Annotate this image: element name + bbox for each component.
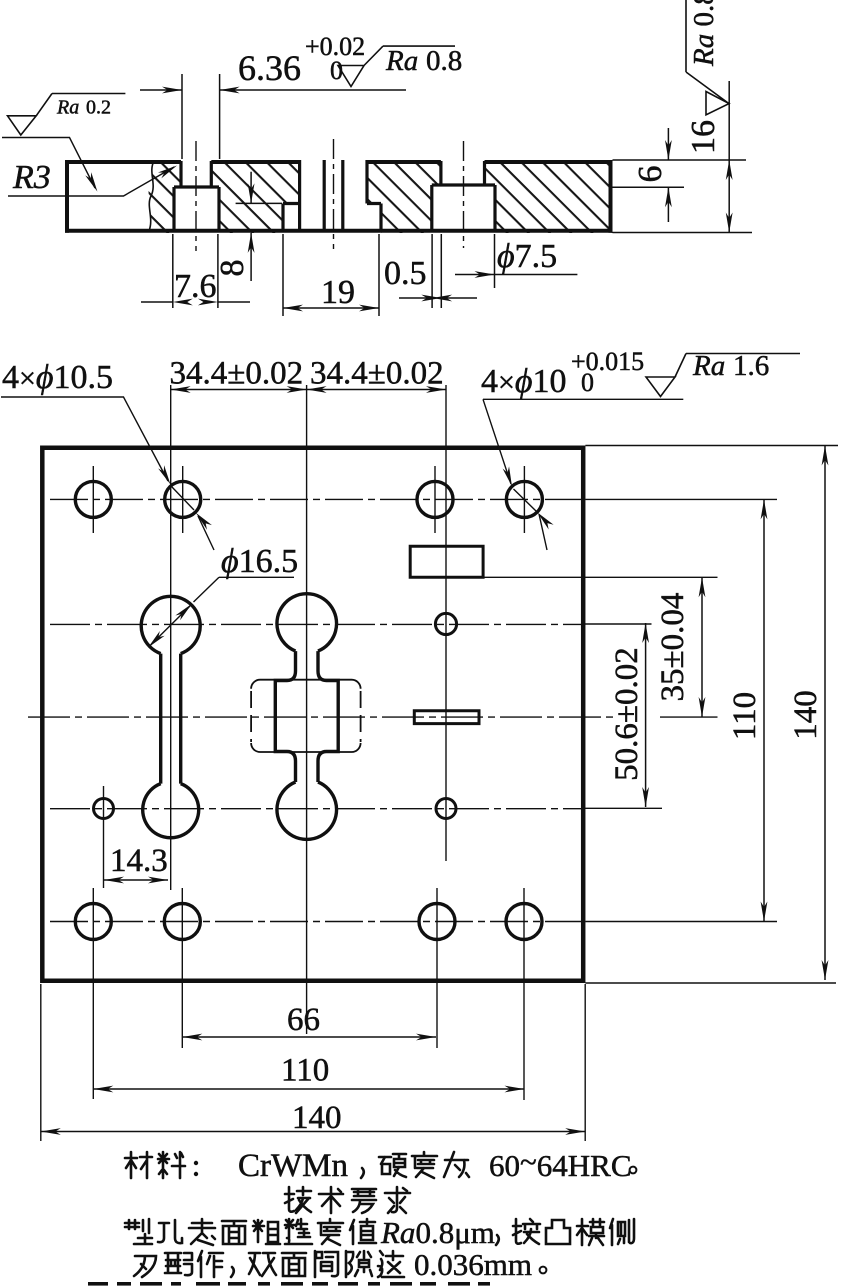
svg-text:0.2: 0.2 [86,97,111,119]
dimension 14.3 [104,879,168,881]
section outline side edges [67,160,611,233]
comma after CrWMn [361,1168,364,1178]
small hole phi7.5 lower left [94,799,114,819]
svg-text:CrWMn: CrWMn [238,1148,348,1184]
svg-text:Ra0.8μm: Ra0.8μm [380,1215,495,1250]
ying du wei (hardness is) [379,1154,406,1177]
dimension 16 right side [728,81,730,233]
flat slot bar on centre row [414,711,479,724]
dashed blank outline rounded rectangle [251,680,361,752]
note line 3 chinese part 2 [513,1219,540,1244]
svg-text:0.8: 0.8 [426,45,462,77]
technical note line 1: cai liao (material) [125,1152,152,1178]
svg-text:Ra: Ra [692,350,725,382]
fullwidth colon [194,1161,198,1165]
svg-text:19: 19 [321,274,355,311]
svg-text:8: 8 [214,260,251,277]
centreline row 3 [50,808,583,810]
svg-text:35±0.04: 35±0.04 [655,593,691,702]
dimension 140 vertical far right [824,446,826,981]
ideographic full stop line 4 [540,1267,547,1274]
corner extensions for 140 [41,984,585,1141]
top row bolt hole 1 [75,481,111,517]
svg-text:ϕ7.5: ϕ7.5 [497,238,557,275]
svg-text:Ra: Ra [385,45,418,77]
centre cross-shaped die opening [275,594,338,840]
rectangular opening upper right [410,546,483,577]
dimension phi7.5 leader [455,234,577,288]
crosshairs and extensions bottom row [93,888,524,1100]
svg-text:1.6: 1.6 [733,350,769,382]
dimension 6 right side [613,128,753,233]
svg-text:60~64HRC: 60~64HRC [489,1144,632,1183]
bottom row hole 2 [164,904,200,940]
svg-text:4×ϕ10: 4×ϕ10 [481,363,567,400]
vertical centreline left dumbbell column [170,385,172,890]
svg-text:66: 66 [287,1002,320,1038]
svg-text:14.3: 14.3 [110,843,168,879]
top edge extension [585,445,838,447]
bottom row hole 3 [419,904,455,940]
dimension 8 rotated [236,172,282,281]
crosshairs top row [93,466,524,533]
svg-text:140: 140 [788,690,824,740]
surface symbol Ra 0.2 top left [8,94,126,136]
reference line from rectangular opening [483,576,717,578]
dimension 110 bottom [93,1088,524,1090]
centreline slot 4 [463,141,465,248]
comma in line 4 [231,1267,234,1277]
surface symbol Ra 1.6 [646,354,800,397]
dimension 6.36 +0.02/0 [140,74,406,159]
svg-text:Ra 0.8: Ra 0.8 [688,0,720,67]
vertical centreline of plate [306,385,308,1034]
cut-off text line at page bottom [88,1282,490,1286]
svg-text:110: 110 [281,1053,329,1089]
note line 4 chinese part 1 [134,1256,156,1277]
wavy break line [149,161,154,231]
dimension 19 [283,234,379,316]
section: hatched block 3 [367,160,441,233]
left dumbbell slot phi16.5 ends [141,596,200,837]
bottom row hole 1 [75,904,111,940]
svg-text:7.6: 7.6 [174,268,217,305]
centreline row 1 [50,498,583,500]
plan: die plate square outline [42,448,583,981]
section: hatched block 2 [211,160,299,233]
dimension 7.6 [141,234,250,308]
svg-text:0: 0 [581,368,594,397]
svg-text:16: 16 [685,120,722,154]
top row hole 2 of 4xphi10.5 [165,481,201,517]
vertical centreline right feature column [445,385,447,861]
svg-text:6.36: 6.36 [238,48,301,88]
svg-text:110: 110 [727,692,763,740]
dimension 0.5 [399,234,477,308]
surface symbol Ra 0.8 on 6.36 line [338,46,455,86]
top row hole 3 [417,481,453,517]
centreline slot 1 [195,141,197,251]
leader from Ra 0.2 [2,138,95,189]
svg-text:34.4±0.02: 34.4±0.02 [170,356,304,392]
svg-text:50.6±0.02: 50.6±0.02 [609,647,645,781]
section outline bottom edge [65,229,613,233]
comma in line 3 [496,1235,499,1245]
small hole right column upper [435,613,456,634]
surface symbol Ra 0.8 rotated top right [686,0,729,115]
note line 3 chinese part 1 [125,1219,152,1244]
dimension 140 bottom [41,1131,585,1133]
section: hatched block right [485,160,613,233]
top row hole 4 of 4xphi10 [506,481,542,517]
svg-text:34.4±0.02: 34.4±0.02 [310,356,444,392]
section outline top edge segments [65,160,613,164]
dimension 110 vertical right [763,499,765,921]
centre opening inner walls [324,160,343,230]
centreline centre opening [333,139,335,249]
small hole right column lower [436,799,456,819]
centreline row 4 [50,921,583,923]
dimension 50.6 vertical [645,623,647,807]
svg-text:140: 140 [292,1100,342,1136]
note line 4 chinese part 2 [249,1253,276,1276]
step notch right of centre opening [367,160,381,230]
svg-text:6: 6 [632,166,669,183]
svg-text:4×ϕ10.5: 4×ϕ10.5 [2,359,113,396]
svg-text:0.5: 0.5 [384,255,427,292]
step notch left of centre opening [283,160,300,230]
bottom edge extension [585,982,836,984]
ideographic full stop [630,1167,637,1174]
centreline of plate centre row [28,716,614,718]
svg-text:0.036mm: 0.036mm [414,1247,532,1282]
dimension 66 bottom [182,1036,436,1038]
bottom row hole 4 [506,904,542,940]
dimension 35 vertical [701,577,703,717]
svg-text:ϕ16.5: ϕ16.5 [221,543,298,580]
slot 4 counterbored opening [432,161,495,230]
crosshair small hole and 14.3 extension [103,786,105,888]
svg-text:Ra: Ra [56,97,79,119]
svg-text:R3: R3 [12,159,51,196]
dimension 34.4 pair [171,389,446,391]
section: hatched block left (behind wavy break) [149,160,181,233]
technical requirements heading [285,1187,311,1213]
centreline row 2 [50,623,583,625]
slot 1 counterbored opening [174,161,219,230]
